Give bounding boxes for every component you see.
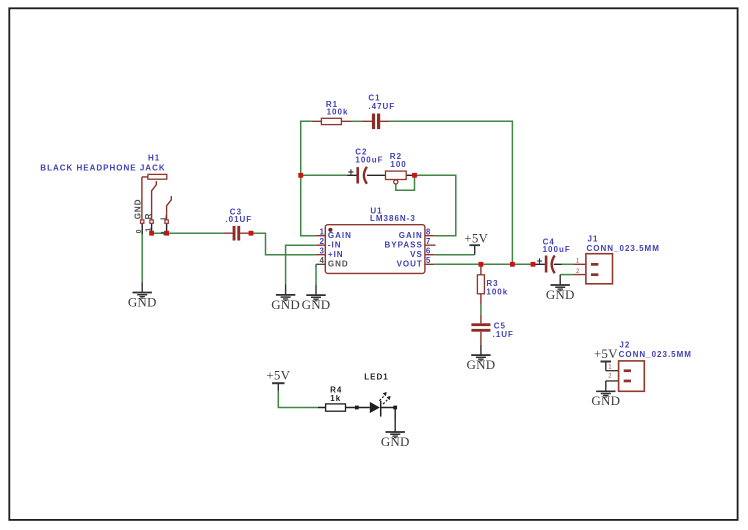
svg-text:100uF: 100uF (355, 156, 383, 165)
svg-text:4: 4 (319, 256, 324, 265)
svg-text:J2: J2 (619, 341, 630, 350)
svg-text:.01UF: .01UF (225, 215, 252, 224)
svg-text:GND: GND (271, 297, 300, 312)
svg-text:GND: GND (328, 259, 349, 268)
svg-text:100: 100 (390, 160, 406, 169)
svg-text:100k: 100k (486, 288, 508, 297)
svg-text:1: 1 (576, 259, 580, 265)
svg-text:GAIN: GAIN (399, 231, 423, 240)
svg-text:GND: GND (467, 357, 496, 372)
svg-text:H1: H1 (148, 153, 160, 162)
svg-text:1k: 1k (330, 394, 341, 403)
svg-text:2: 2 (576, 269, 580, 275)
svg-text:+IN: +IN (328, 250, 344, 259)
svg-text:.47UF: .47UF (368, 102, 395, 111)
svg-text:LED1: LED1 (364, 373, 388, 382)
svg-text:100uF: 100uF (543, 245, 571, 254)
svg-text:2: 2 (608, 374, 612, 380)
svg-text:LM386N-3: LM386N-3 (370, 214, 416, 223)
svg-text:GND: GND (302, 297, 331, 312)
svg-text:R: R (144, 213, 153, 220)
svg-text:5: 5 (426, 256, 431, 265)
svg-text:1: 1 (146, 228, 153, 232)
svg-text:3: 3 (319, 247, 324, 256)
svg-text:.1UF: .1UF (493, 330, 514, 339)
svg-text:GND: GND (591, 393, 620, 408)
svg-text:1: 1 (319, 228, 324, 237)
svg-text:0: 0 (136, 229, 143, 233)
svg-text:GND: GND (133, 199, 142, 220)
svg-text:CONN_023.5MM: CONN_023.5MM (587, 244, 660, 253)
svg-text:GAIN: GAIN (328, 231, 352, 240)
svg-text:BLACK HEADPHONE JACK: BLACK HEADPHONE JACK (40, 163, 165, 172)
svg-text:VOUT: VOUT (397, 259, 423, 268)
svg-text:6: 6 (426, 247, 431, 256)
svg-text:8: 8 (426, 228, 431, 237)
svg-text:-IN: -IN (328, 240, 342, 249)
svg-text:L: L (159, 214, 168, 220)
svg-text:+5V: +5V (464, 230, 488, 245)
svg-text:4: 4 (161, 231, 168, 235)
svg-text:7: 7 (426, 237, 431, 246)
svg-text:100k: 100k (327, 108, 349, 117)
svg-text:J1: J1 (588, 235, 599, 244)
svg-text:+5V: +5V (594, 346, 618, 361)
svg-text:GND: GND (381, 434, 410, 449)
svg-text:GND: GND (128, 294, 157, 309)
svg-text:1: 1 (608, 365, 612, 371)
svg-text:2: 2 (319, 237, 324, 246)
svg-text:BYPASS: BYPASS (384, 240, 422, 249)
svg-text:CONN_023.5MM: CONN_023.5MM (619, 350, 692, 359)
svg-text:VS: VS (410, 250, 423, 259)
svg-text:+5V: +5V (266, 367, 290, 382)
svg-text:GND: GND (546, 287, 575, 302)
